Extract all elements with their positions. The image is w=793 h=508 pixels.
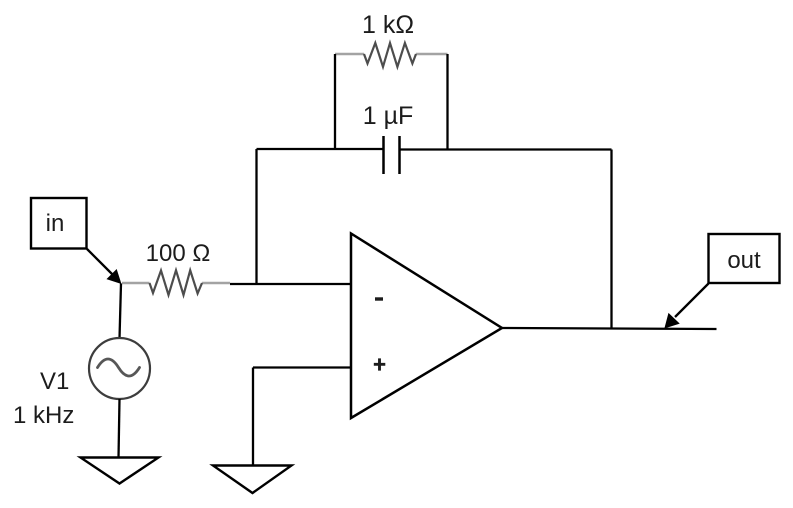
arrow: from "in" label to input node xyxy=(87,249,121,283)
wire: right leg of feedback resistor xyxy=(446,54,448,151)
capacitor C 1 µF xyxy=(384,136,400,174)
net label "in" xyxy=(31,198,87,249)
wire: feedback left vertical down to inverting input xyxy=(255,149,257,285)
net label "out" xyxy=(709,234,780,283)
ground (below V1) xyxy=(81,458,159,484)
wire: non-inverting input xyxy=(253,366,351,368)
wire: non-inverting input down to ground xyxy=(252,368,254,466)
wire: V1 to ground xyxy=(119,399,120,458)
svg-text:V1: V1 xyxy=(40,368,69,395)
wire: left leg of feedback resistor xyxy=(334,54,336,150)
svg-text:1 µF: 1 µF xyxy=(363,102,414,130)
wire: input node down to V1 xyxy=(120,284,122,339)
svg-text:out: out xyxy=(727,247,761,274)
op-amp U1 xyxy=(351,234,502,419)
svg-text:100 Ω: 100 Ω xyxy=(146,240,211,267)
wire: inverting node to capacitor left plate xyxy=(257,148,384,150)
svg-text:in: in xyxy=(46,210,65,237)
source V1 (AC sine source) xyxy=(89,338,150,399)
resistor 1 kΩ (feedback) xyxy=(335,43,448,67)
arrow: from "out" label to output wire xyxy=(665,284,708,328)
resistor 100 Ω (input) xyxy=(122,270,230,295)
wire: capacitor right plate to output branch xyxy=(400,148,612,150)
wire: op-amp output xyxy=(502,328,717,329)
wire: 100 Ω resistor to op-amp inverting input xyxy=(230,283,351,285)
wire: feedback right vertical down to output node xyxy=(610,150,612,329)
svg-text:1 kHz: 1 kHz xyxy=(13,402,74,429)
svg-text:1 kΩ: 1 kΩ xyxy=(362,11,414,39)
ground (non-inverting input) xyxy=(213,466,292,494)
